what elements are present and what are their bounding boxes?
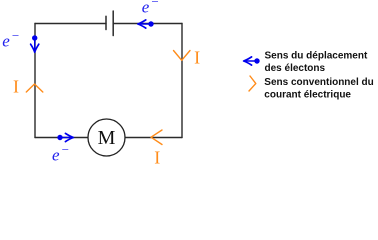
electron arrow on top wire (leftward) <box>138 20 154 28</box>
legend electron icon <box>244 57 260 65</box>
svg-text:Sens du déplacement: Sens du déplacement <box>265 51 368 62</box>
wire right segment <box>181 24 183 138</box>
wire top-left segment <box>35 23 106 25</box>
current chevron on right wire (downward) <box>174 51 191 61</box>
legend current icon <box>249 76 256 91</box>
svg-text:des électons: des électons <box>265 63 326 74</box>
svg-text:e−: e− <box>2 28 20 51</box>
wire top-right segment <box>113 23 182 25</box>
motor M <box>88 119 125 156</box>
svg-text:e−: e− <box>142 0 160 16</box>
electron arrow on bottom wire (rightward) <box>57 133 73 141</box>
svg-text:courant électrique: courant électrique <box>264 89 351 100</box>
wire bottom-left segment <box>35 137 88 139</box>
svg-text:M: M <box>98 127 116 149</box>
svg-text:I: I <box>13 76 19 96</box>
battery negative plate (short) <box>105 16 107 29</box>
current chevron on left wire (upward) <box>26 84 43 92</box>
wire left segment <box>34 24 36 138</box>
svg-text:e−: e− <box>52 142 70 165</box>
wire bottom-right segment <box>125 137 182 139</box>
svg-text:Sens conventionnel du: Sens conventionnel du <box>264 77 373 88</box>
battery positive plate (long) <box>112 11 114 36</box>
svg-text:I: I <box>194 48 200 68</box>
current chevron on bottom wire (leftward) <box>151 130 162 145</box>
svg-text:I: I <box>154 148 160 168</box>
electron arrow on left wire (downward) <box>31 35 39 52</box>
